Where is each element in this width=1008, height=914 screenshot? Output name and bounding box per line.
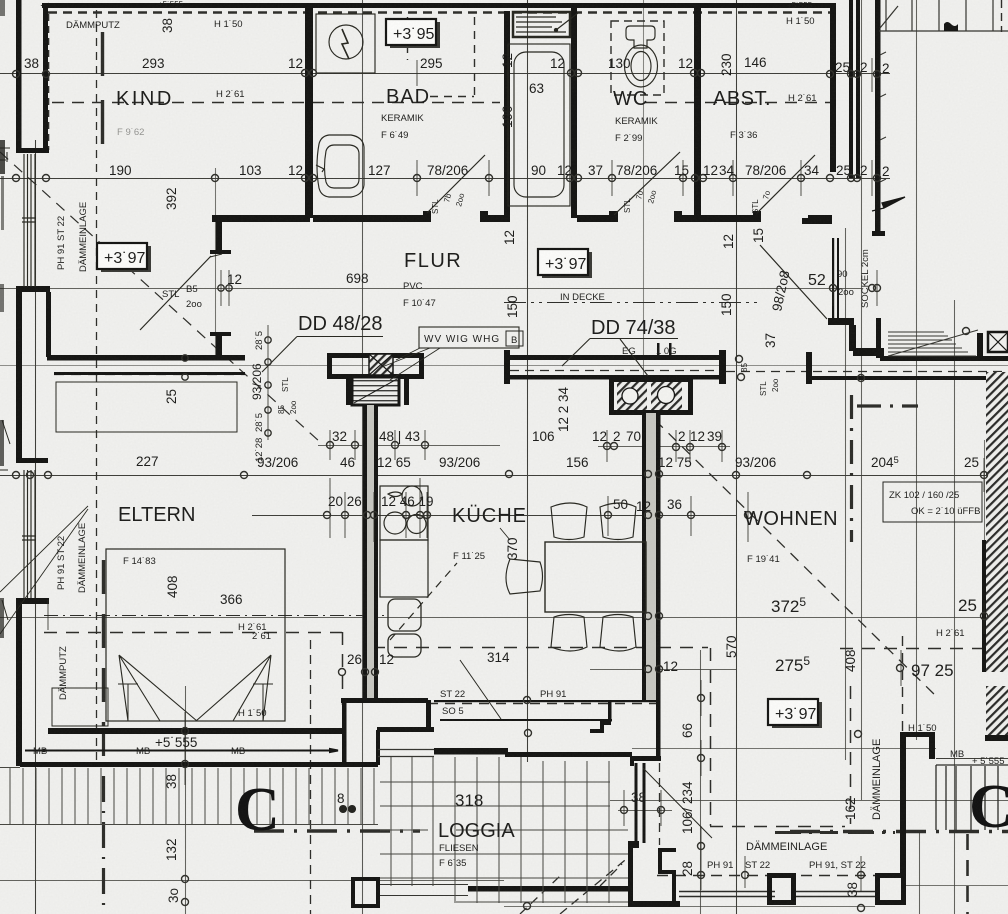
axis node markers row y475: [13, 472, 20, 479]
washing machine zigzag: [342, 29, 349, 59]
wv wig whg box: [419, 327, 519, 348]
chair bottom left: [551, 615, 587, 652]
bad sink: [317, 135, 364, 197]
bottom outer corner left: [16, 745, 22, 766]
loggia north thin piece: [378, 750, 434, 757]
wohnen sw step horizontal: [660, 870, 676, 874]
dashdot y475 overlay: [0, 475, 504, 477]
axis line vertical wohnen mid: [845, 228, 847, 760]
right wall cap: [872, 231, 885, 236]
wohnen sw step vertical 2: [672, 870, 676, 903]
dashed vertical loggia door x659: [659, 703, 661, 845]
insulation dash under top wall: [48, 11, 832, 13]
kueche-wohnen wall line 1: [642, 413, 647, 700]
wc-abst wall: [694, 8, 701, 218]
top outer wall: [42, 3, 836, 8]
dim line stl y288 left: [150, 288, 252, 290]
daemmputz bold dash eltern: [102, 560, 105, 726]
in decke dashdot: [504, 302, 760, 304]
toilet tank: [626, 26, 655, 48]
dashed below kitchen steps y703: [428, 703, 656, 705]
stl b5 dim marks flur west: [221, 270, 229, 306]
right wall resume: [876, 318, 881, 358]
left outer wall top: [16, 0, 22, 153]
closet eltern top: [56, 382, 237, 432]
abst stub right: [802, 218, 832, 224]
fridge 2: [388, 634, 421, 657]
dim line horizontal y515: [252, 515, 736, 517]
kitchen step riser: [608, 701, 612, 722]
bathtub inner: [514, 52, 564, 197]
dim line horizontal y750 right: [936, 758, 1008, 760]
kind-bad wall: [305, 8, 313, 218]
dim col x268: [267, 325, 269, 440]
top plus5555 tick: [42, 4, 300, 8]
washing machine drum: [329, 25, 363, 59]
chimney dd7438 stub above: [657, 343, 672, 355]
wc door jamb: [609, 211, 618, 222]
label B box: [506, 331, 523, 346]
flur south double wall top line: [504, 355, 726, 360]
kitchen dim sticks: [327, 490, 691, 540]
wohnen right dim sticks: [624, 458, 984, 892]
chimney dd4828 box diagonal: [354, 379, 397, 403]
dim dashdot y615: [44, 615, 384, 617]
wall tick marks right wall: [880, 52, 886, 182]
bad door swing: [427, 155, 485, 213]
shaft dot: [554, 28, 557, 31]
heavy dashed vertical x967 bottom: [966, 834, 969, 914]
bed fan left tick: [118, 684, 138, 721]
dashed south wall line y874: [657, 875, 905, 877]
wohnen south pier: [767, 873, 796, 905]
right edge hatch band edge: [982, 540, 986, 672]
heavy dashdot section C right: [790, 830, 1008, 833]
kitchen-eltern bottom bit: [590, 729, 604, 733]
east wing south wall top line: [880, 356, 1008, 361]
sockel wall L corner a: [828, 318, 854, 325]
chair top left: [551, 503, 587, 540]
abst east wall: [830, 8, 836, 172]
chimney dd7438 right circle: [658, 387, 675, 404]
flur west wall upper stub: [216, 222, 222, 252]
flur south wall cap west: [504, 350, 510, 384]
wohnen east wall top cap: [900, 732, 934, 737]
east wing corner block: [977, 333, 983, 359]
axis line vertical loggia door: [700, 650, 702, 914]
dd4828 callout: [269, 337, 520, 366]
dim tick row y445 right: [598, 446, 730, 448]
bad door jamb: [423, 211, 431, 222]
axis node markers flur: [218, 285, 224, 291]
wohnen loggia door jamb left: [635, 763, 638, 843]
window 1 glazing: [22, 154, 36, 287]
eltern north wall inner line: [54, 372, 245, 375]
axis line vertical east 2: [916, 0, 918, 740]
left outer wall bottom: [16, 600, 22, 752]
axis line vertical through WC: [527, 0, 529, 762]
axis line vertical A: [35, 140, 37, 914]
mb line left: [25, 749, 338, 752]
dim line horizontal y475: [0, 475, 1008, 477]
terrace hatch band: [0, 768, 378, 825]
bad dashed niche vertical x407: [407, 17, 409, 60]
stair hatch triangle flur east: [888, 330, 978, 356]
axis node marker stair: [963, 328, 970, 335]
boxed label +3.95: [386, 19, 440, 48]
axis node markers wall y360: [736, 356, 743, 363]
daemmputz dashed vertical x96: [96, 10, 98, 762]
kitchen sink divider: [380, 567, 428, 569]
kitchen step jog: [600, 721, 611, 732]
dim line horizontal y880: [0, 880, 504, 882]
kitchen west wall line 1: [363, 405, 367, 698]
east double wall line 1: [849, 0, 853, 178]
loggia north wall thick: [434, 748, 508, 755]
boxed label +3.97 flur: [538, 249, 592, 278]
axis node markers row y178: [13, 175, 20, 182]
left outer wall mid: [16, 290, 22, 460]
dashed kitchen H line y647: [372, 647, 708, 649]
dashed ph91 line y701 west: [504, 701, 640, 703]
kueche-wohnen wall line 2: [656, 413, 661, 700]
chimney dd7438 left circle: [622, 388, 638, 404]
kitchen step band top: [434, 700, 660, 702]
f1125 pointer dash: [390, 563, 457, 640]
bad sink tap: [316, 165, 324, 172]
flur west wall cap 2: [210, 332, 231, 336]
shaft pointer: [556, 13, 578, 30]
axis line vertical kind door: [215, 168, 217, 358]
loggia tile grid: [380, 757, 628, 903]
kitchen step band bottom: [440, 719, 612, 721]
terrace step inner vertical: [376, 730, 380, 765]
dashed vertical x310 loggia: [310, 640, 312, 914]
wohnen sw wall vertical: [628, 845, 633, 905]
top right stair glyph: [944, 22, 958, 31]
wc toilet dashed box: [611, 21, 664, 95]
dashed horizontal wohnen y826: [710, 826, 845, 828]
dim line y810 loggia door: [618, 810, 672, 812]
bad-wc wall: [571, 8, 577, 218]
axis node marker east wing: [182, 355, 188, 361]
x-box cross: [988, 332, 1008, 352]
eltern north wall: [47, 355, 245, 361]
boxed label +3.97 west: [97, 243, 151, 272]
bad door tick: [444, 180, 468, 204]
bad south wall east bit: [484, 215, 510, 222]
loggia column: [353, 879, 378, 906]
kind door leaf: [210, 254, 222, 257]
366 dim sticks: [48, 600, 185, 785]
loggia north wall step: [505, 752, 632, 757]
bed fan right tick: [253, 684, 273, 721]
axis node markers y617: [645, 613, 652, 620]
loggia south beam: [468, 886, 630, 892]
flur west wall lower stub: [216, 336, 222, 357]
kueche pointer: [500, 528, 510, 540]
kind inner dash vertical: [48, 14, 50, 150]
kind door swing: [140, 256, 211, 330]
axis node markers south row: [698, 843, 705, 850]
entrance arrow: [872, 197, 905, 211]
terrace step door swing: [460, 660, 501, 719]
kitchen west wall line 2: [374, 405, 378, 698]
bathtub outer: [508, 44, 570, 206]
dim line horizontal y365: [0, 365, 1008, 367]
sockel wall vertical: [849, 325, 856, 351]
chimney dd4828 hatched box below: [352, 377, 399, 405]
axis line vertical east 1: [861, 0, 863, 800]
bed fan left: [119, 655, 197, 721]
boxed label +3.97 wohnen: [768, 699, 822, 728]
dashed wohnen diagonal: [655, 420, 938, 698]
x-box east: [988, 332, 1008, 352]
window sill step 1: [16, 148, 49, 153]
axis node markers x268 column: [265, 337, 271, 343]
axis node markers y672: [339, 669, 346, 676]
terrace step block mid horizontal: [377, 727, 434, 732]
flur996 pointer: [436, 296, 466, 310]
abst south wall east: [808, 215, 832, 222]
daemmputz bold dash kind: [101, 32, 104, 152]
stair treads bottom right: [936, 765, 1008, 830]
long diagonal dash kind-eltern: [0, 152, 320, 442]
dashed vertical x850 wohnen: [850, 686, 852, 824]
bed outline: [106, 549, 285, 721]
dim line horizontal y906: [504, 906, 875, 908]
wohnen sw wall block: [628, 841, 639, 848]
H 2.61 dashed line wc-abst: [645, 102, 832, 104]
dashed vertical x902 h261: [902, 636, 904, 733]
axis line vertical through bath: [362, 0, 364, 914]
stove: [380, 486, 428, 540]
kitchen west wall fill: [367, 405, 374, 698]
flur south double wall bottom line: [504, 375, 726, 380]
wohnen sw step vertical: [658, 848, 662, 874]
dim line horizontal y288: [0, 288, 862, 290]
dim tick row y445 left: [318, 445, 500, 447]
axis node markers y669: [645, 666, 652, 673]
flur north wall west: [212, 215, 310, 222]
scan artifact left edge marks: [0, 0, 8, 638]
eltern window swing pointers: [0, 8, 36, 40]
abst south wall: [701, 215, 757, 222]
flur wall axis dash mid: [510, 370, 719, 372]
wohnen south window sill lines: [679, 892, 875, 897]
chimney dd4828 outline: [327, 353, 424, 379]
window 2 glazing: [22, 470, 36, 598]
washing machine square: [316, 14, 375, 73]
window sill step 3: [16, 458, 48, 463]
window sill block 4: [16, 598, 49, 617]
axis node markers bottom area: [182, 728, 189, 735]
dashed drop at kitchen x342: [342, 632, 344, 705]
chair left: [506, 559, 543, 594]
wohnen dashed window h150: [905, 733, 935, 735]
section line C vertical: [102, 730, 105, 914]
dd7438 underline: [562, 339, 678, 377]
dim line horizontal y884 right: [905, 885, 1008, 887]
eltern south wall: [48, 728, 342, 734]
flur east door swing: [760, 245, 827, 319]
bad south wall: [313, 215, 427, 222]
bad sink inner: [325, 145, 360, 188]
sockel thin walls: [832, 238, 839, 320]
dim line horizontal y73: [0, 73, 890, 75]
dim line horizontal y617: [0, 617, 985, 619]
bold dashdot vertical x851 flur: [850, 395, 853, 542]
flur wall axis dash gap: [726, 371, 806, 373]
chimney dd7438 left flue: [617, 382, 647, 410]
wohnen ne corner vertical: [929, 732, 935, 759]
terrace step block top: [341, 698, 428, 703]
axis node markers loggia door: [621, 807, 628, 814]
chimney dd4828 flue hatch: [369, 354, 393, 375]
bad door jamb 2: [480, 211, 488, 222]
chair bottom right: [600, 615, 636, 652]
chimney dd7438 right flue: [651, 382, 682, 410]
east wing wall cap: [806, 352, 812, 384]
wohnen sw step cap: [658, 848, 676, 852]
bottom outer wall: [20, 762, 378, 767]
right outer wall: [875, 0, 881, 232]
wohnen se corner block: [875, 873, 906, 905]
wv box callouts: [382, 348, 440, 380]
label zk box: [883, 482, 982, 522]
dim line horizontal y800: [610, 800, 1008, 802]
eltern west inner stub: [46, 292, 51, 357]
toilet bowl inner: [631, 52, 651, 81]
axis node markers row y515: [324, 512, 331, 519]
axis line vertical east 3: [954, 300, 956, 914]
bed fan right: [196, 655, 271, 721]
shaft hatched box: [513, 12, 570, 37]
dim line y731 eltern: [160, 730, 212, 732]
shaft hatch lines: [516, 17, 566, 32]
wc south wall east: [676, 215, 701, 222]
small dim sticks y500: [330, 478, 748, 542]
dashed vertical wohnen x710: [710, 648, 712, 826]
chimney dd4828 flue cross: [369, 354, 393, 375]
right edge hatch lower edge: [985, 735, 1008, 741]
loggia south thin lines: [378, 885, 468, 896]
kind west inner wall: [43, 3, 48, 152]
axis node markers row y445: [327, 442, 334, 449]
flur wall axis dash east: [813, 371, 1008, 373]
dashed diagonals below loggia: [520, 856, 630, 914]
wohnen east wall: [900, 733, 906, 875]
closet eltern bottom left: [52, 688, 108, 726]
bold insulation dashes y832: [775, 831, 895, 834]
wc door swing: [614, 152, 680, 215]
dining table: [545, 542, 646, 612]
dashed top right corner x1001: [1001, 0, 1003, 32]
loggia east jog horizontal: [630, 756, 661, 761]
dim line horizontal y669: [590, 669, 736, 671]
fridge: [388, 599, 421, 631]
east double wall line 2: [856, 0, 860, 178]
dim line horizontal y178: [0, 178, 890, 180]
y73 y178 sticks: [417, 60, 801, 196]
dd4828 underline: [262, 337, 383, 373]
right edge hatch band upper: [986, 372, 1008, 672]
toilet bowl: [625, 45, 658, 87]
axis line vertical through kitchen wall: [643, 0, 645, 413]
kueche-wohnen wall fill: [646, 413, 656, 700]
right edge hatch band lower: [986, 686, 1008, 738]
y445 dim sticks: [330, 430, 722, 462]
bad dashed niche horizontal: [430, 96, 474, 98]
b label circles: [339, 805, 356, 813]
loggia east jog vertical: [630, 756, 634, 766]
eltern wall inner dash: [54, 374, 245, 376]
wohnen south wall west piece: [628, 901, 680, 907]
f1941 pointer: [772, 530, 788, 548]
sockel dim sticks: [833, 58, 877, 306]
axis line vertical wohnen west: [736, 0, 738, 914]
loggia east wall upper: [656, 700, 661, 760]
sockel step horizontal: [853, 348, 884, 356]
in decke tick: [504, 288, 760, 290]
wc south wall: [577, 215, 615, 222]
axis line vertical bottom right: [919, 830, 921, 914]
H 2.61 dashed line kind: [52, 102, 500, 104]
wohnen loggia door jamb right: [643, 763, 646, 843]
top right stair band: [879, 0, 1008, 31]
top right stair diagonal: [880, 6, 898, 28]
eltern h150 line: [240, 718, 285, 720]
chimney dd4828 legs: [346, 377, 409, 405]
loggia door swing: [643, 768, 712, 838]
bad dashed niche vertical x474: [474, 17, 476, 97]
abst door jamb: [753, 211, 761, 222]
window 2 swing lines: [0, 506, 88, 634]
chimney dd7438 outline: [609, 377, 693, 415]
flur south wall cap east: [719, 350, 726, 384]
H 2.61 dashed eltern: [44, 632, 342, 634]
stove burners: [384, 486, 426, 534]
left margin marks: [0, 148, 10, 620]
bold dashdot horizontal y406: [857, 404, 918, 407]
chair top right: [600, 503, 636, 540]
heavy dashdot section C left: [254, 829, 420, 832]
tub west wall: [504, 11, 510, 216]
axis line vertical far east: [984, 440, 986, 625]
dashed H line wohnen y648 east: [840, 648, 985, 650]
mb line dot: [42, 749, 46, 753]
abst door swing: [757, 155, 815, 213]
window sill step 2: [16, 286, 50, 292]
wc door jamb 2: [674, 211, 682, 222]
east wing wall second line: [806, 376, 1008, 380]
axis line vertical eltern: [185, 686, 187, 914]
kitchen counter: [380, 540, 428, 597]
flur west wall cap 1: [210, 250, 231, 254]
stair hatch triangle lines: [888, 330, 978, 356]
terrace step block right vertical: [426, 700, 431, 729]
insulation dash bottom wall y876 left piece: [670, 873, 905, 875]
dim line horizontal y748 wohnen: [632, 748, 936, 750]
terrace step block left vertical: [342, 700, 347, 764]
axis node markers row y74: [13, 71, 20, 78]
